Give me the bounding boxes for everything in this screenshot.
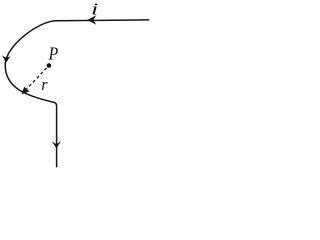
wire: top horizontal segment, arc bend around P, vertical exit [5, 20, 149, 167]
svg-text:r: r [41, 75, 48, 94]
current arrow on vertical wire (pointing down) [52, 141, 61, 148]
svg-text:i: i [91, 0, 99, 18]
radius r dashed line from P to arc [26, 68, 47, 90]
current arrow on top wire (pointing left) [87, 15, 96, 24]
svg-text:P: P [48, 43, 58, 63]
current arrow on arc (pointing down) [2, 55, 10, 62]
arrowhead of radius line (on arc) [22, 87, 30, 95]
point P (dot at arc center) [47, 63, 52, 68]
